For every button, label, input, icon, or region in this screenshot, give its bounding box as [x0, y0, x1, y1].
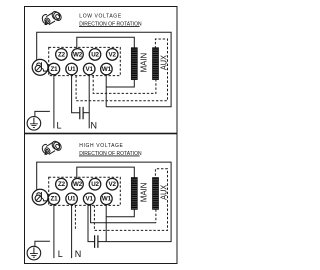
terminal U2 panel 2	[89, 178, 101, 190]
dashed AUX bottom stub panel 2	[155, 209, 157, 222]
svg-text:Z2: Z2	[58, 51, 66, 58]
ground clamp terminal circle panel 1	[32, 59, 48, 75]
MAIN winding bar panel 2	[131, 178, 137, 210]
terminal W1 panel 1	[101, 63, 113, 75]
header underline	[79, 26, 140, 28]
svg-text:W1: W1	[102, 66, 112, 73]
wire MAIN bottom to W1 panel 2	[106, 209, 134, 216]
svg-text:AUX: AUX	[159, 184, 168, 200]
wire V1 to capacitor panel 2	[88, 204, 95, 241]
svg-text:N: N	[75, 249, 82, 259]
wire U1 to capacitor panel 1	[72, 74, 80, 112]
earth symbol panel 1	[27, 111, 50, 130]
terminal U1 panel 1	[66, 63, 78, 75]
capacitor right lead panel 1	[83, 112, 89, 114]
dashed alternate wire U1 to AUX top panel 1	[76, 39, 167, 101]
svg-text:V1: V1	[86, 66, 94, 73]
terminal Z1 panel 1	[48, 63, 60, 75]
wire MAIN bottom to W1 panel 1	[106, 80, 134, 87]
svg-text:Z1: Z1	[50, 66, 58, 73]
terminal V2 panel 2	[106, 178, 118, 190]
svg-text:U2: U2	[91, 51, 99, 58]
svg-text:W2: W2	[73, 181, 83, 188]
wire L line panel 2	[53, 204, 55, 258]
wire W2 to MAIN top panel 1	[77, 37, 135, 49]
header underline panel 2	[79, 155, 140, 157]
terminal U1 panel 2	[66, 193, 78, 205]
svg-text:V2: V2	[109, 51, 117, 58]
svg-text:AUX: AUX	[159, 54, 168, 70]
outer section box LOW VOLTAGE	[25, 7, 178, 134]
svg-text:U1: U1	[68, 196, 76, 203]
svg-text:U2: U2	[91, 181, 99, 188]
ground clamp loop wire (clamp up, across top, down right side, to W1) panel 1	[37, 32, 171, 107]
svg-text:U1: U1	[68, 66, 76, 73]
svg-text:Z1: Z1	[50, 196, 58, 203]
dashed alternate wire V1 to AUX top panel 2	[94, 169, 167, 231]
svg-text:W2: W2	[73, 51, 83, 58]
dashed alternate wire terminal box to AUX bottom panel 1	[93, 76, 156, 94]
svg-text:Z2: Z2	[58, 181, 66, 188]
svg-text:HIGH VOLTAGE: HIGH VOLTAGE	[79, 143, 123, 149]
wire U1 riser to N panel 2	[71, 204, 73, 258]
svg-text:MAIN: MAIN	[140, 182, 149, 202]
shaft rotation icon (top header, panel 1)	[42, 10, 62, 25]
svg-text:V2: V2	[109, 181, 117, 188]
terminal W2 panel 1	[72, 49, 84, 61]
terminal V1 panel 2	[83, 193, 95, 205]
terminal Z1 panel 2	[48, 193, 60, 205]
terminal Z2 panel 1	[56, 49, 68, 61]
AUX winding bar panel 2	[153, 178, 159, 210]
capacitor right lead panel 2	[98, 241, 106, 243]
terminal V1 panel 1	[83, 63, 95, 75]
wire V1 riser to N panel 1	[88, 74, 90, 128]
outer section box HIGH VOLTAGE	[25, 134, 178, 264]
terminal W1 panel 2	[101, 193, 113, 205]
ground clamp loop wire (clamp up, across top, down right side, to W1/capacitor) panel 2	[37, 162, 171, 242]
svg-text:W1: W1	[102, 196, 112, 203]
wire L line panel 1	[53, 74, 55, 128]
wire V1 to AUX bottom corner panel 2	[91, 204, 156, 223]
svg-text:V1: V1	[86, 196, 94, 203]
AUX winding bar panel 1	[153, 48, 159, 80]
terminal W2 panel 2	[72, 178, 84, 190]
earth symbol panel 2	[27, 241, 50, 260]
ground clamp terminal circle panel 2	[32, 189, 48, 205]
svg-text:MAIN: MAIN	[140, 53, 149, 73]
terminal U2 panel 1	[89, 49, 101, 61]
capacitor C panel 1	[80, 107, 83, 119]
wire W1 riser panel 1	[105, 74, 107, 107]
wire W1 riser panel 2	[105, 204, 107, 242]
MAIN winding bar panel 1	[131, 48, 137, 80]
capacitor C panel 2	[95, 235, 98, 248]
terminal V2 panel 1	[106, 49, 118, 61]
dashed terminal box panel 2	[49, 177, 121, 205]
svg-text:LOW VOLTAGE: LOW VOLTAGE	[79, 14, 122, 20]
dashed terminal box panel 1	[49, 47, 121, 75]
dashed drop from terminal box below U1 panel 2	[74, 205, 76, 230]
svg-text:L: L	[57, 120, 62, 130]
wire W2 to MAIN top panel 2	[77, 167, 135, 179]
terminal Z2 panel 2	[56, 178, 68, 190]
svg-text:N: N	[91, 120, 98, 130]
svg-text:L: L	[58, 249, 63, 259]
shaft rotation icon (header, panel 2)	[42, 140, 62, 155]
